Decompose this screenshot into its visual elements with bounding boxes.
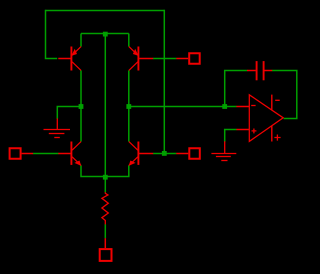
op-amp U1 [236,95,283,142]
wire emitter bus of bottom pair [81,165,129,176]
transistor Q2 (PNP top-right) [129,47,153,71]
wire emitter rail of top pair [81,33,129,35]
wire right column node to op-amp inverting input [129,106,237,108]
node right column / op-amp wire junction [126,104,131,109]
wire ground branch to left column node [57,107,81,119]
wire feedback left vertical and top run to C1 [225,71,248,107]
node Q4 base / cross-couple junction [162,151,167,156]
wire stub Q2 emitter to rail [128,34,130,47]
wire feedback from C1 to op-amp output [272,71,297,119]
ground (left, below Q1/Q3 column branch) [44,118,71,137]
wire left vertical from top rail to Q1 base [46,10,58,59]
resistor R1 [102,192,108,224]
label plus noninverting input [252,129,257,134]
wire resistor to bottom port [104,224,106,238]
node left column / ground junction [79,104,84,109]
port P3 (bottom right) [176,148,200,159]
wire Q4 base node to port [153,153,176,155]
capacitor C1 (feedback) [247,61,272,80]
label minus inverting input [251,105,255,107]
transistor Q1 (PNP top-left) [58,47,81,71]
wire port to Q3 base [33,153,59,155]
wire Q2 base to port [153,58,176,60]
transistor Q3 (NPN bottom-left) [58,142,81,166]
ground (right, op-amp noninverting input) [211,141,236,160]
wire op-amp noninverting input to ground [225,130,237,142]
node top center junction [103,32,108,37]
label minus V- pin [275,99,280,101]
wire stub Q1 emitter to rail [80,34,82,47]
label plus V+ pin [274,135,280,141]
port P2 (top right) [176,53,199,64]
wire top rail [46,10,165,12]
wire center vertical from top rail node down to resistor [104,34,106,193]
port P4 (bottom, below resistor) [100,238,112,261]
wire right column Q2 collector to Q4 collector [128,70,130,141]
port P1 (left input) [10,148,33,159]
node emitter bus / resistor junction [103,175,108,180]
wire right vertical from top rail down to node at Q4 base [163,10,165,154]
node feedback / inverting input junction [222,104,227,109]
wire left column Q1 collector to Q3 collector [80,70,82,141]
transistor Q4 (NPN bottom-right) [129,142,153,166]
